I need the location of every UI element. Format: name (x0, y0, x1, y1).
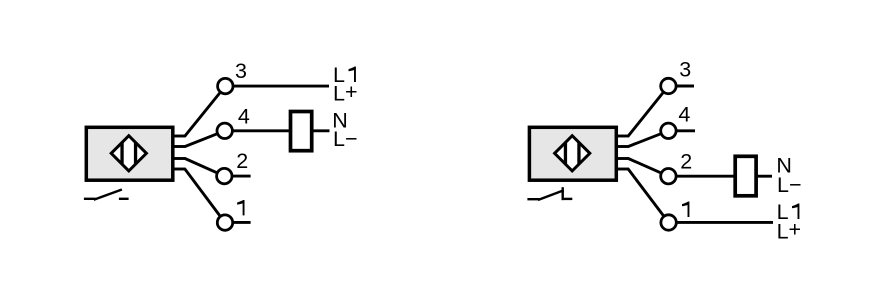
net label N (left) (332, 109, 348, 133)
terminal 3 (right) (661, 78, 676, 93)
net label N (right) (776, 153, 792, 177)
svg-text:L: L (777, 219, 789, 243)
pin number 2 (right) (680, 149, 692, 173)
wire stub3 to terminal 3 (185, 86, 226, 136)
wire load to N/L- (312, 129, 330, 132)
net label L1 (left) (333, 63, 689, 217)
svg-text:2: 2 (236, 149, 248, 173)
right diagram: sensor with NC contact (349, 58, 802, 244)
wire stub4 to terminal 4 (right) (628, 131, 668, 147)
pin stub 2 (right box) (616, 157, 629, 160)
wire stub2 to terminal 2 (right) (628, 159, 668, 177)
load L (right, on pin 2) (735, 156, 756, 196)
terminal 2 (left) (217, 168, 232, 183)
pin stub 2 (left box) (173, 157, 186, 160)
net label L- (right) (777, 173, 802, 197)
wire terminal 1 to L1/L+ (right) (675, 221, 774, 224)
net label L+ (right) (777, 218, 802, 244)
pin number 3 (right) (679, 58, 691, 82)
pin stub 1 (right box) (616, 168, 629, 171)
svg-text:L−: L− (333, 127, 358, 151)
wire stub2 to terminal 2 (185, 159, 224, 177)
wire stub terminal 2 (231, 175, 251, 178)
pin number 4 (left) (238, 104, 250, 128)
wire stub terminal 1 (231, 221, 251, 224)
svg-text:L: L (333, 82, 345, 106)
wire stub1 to terminal 1 (right) (628, 169, 669, 223)
pin number 1 (left) (237, 200, 244, 215)
pin stub 3 (right box) (616, 135, 629, 138)
terminal 2 (right) (661, 169, 676, 184)
wire stub3 to terminal 3 (right) (628, 86, 668, 136)
sensor symbol diamond (right) (555, 136, 590, 171)
svg-text:+: + (789, 218, 802, 242)
load L (left, on pin 4) (291, 112, 312, 151)
svg-text:4: 4 (238, 104, 250, 128)
svg-text:3: 3 (679, 58, 691, 82)
net label L- (left) (333, 127, 358, 151)
pin stub 4 (right box) (616, 145, 629, 148)
terminal 4 (right) (661, 123, 676, 138)
pin stub 3 (left box) (173, 135, 186, 138)
pin number 4 (right) (678, 103, 690, 127)
terminal 1 (right) (661, 215, 676, 230)
NC contact symbol (right) (527, 187, 572, 200)
svg-text:2: 2 (680, 149, 692, 173)
net label L1 (right) (777, 200, 800, 224)
sensor symbol diamond (left) (111, 136, 146, 171)
sensor box (left) (86, 127, 173, 180)
terminal 4 (left) (217, 123, 232, 138)
svg-text:L−: L− (777, 173, 802, 197)
wire terminal 3 to L1/L+ (230, 85, 329, 88)
svg-text:3: 3 (235, 59, 247, 83)
wire load to N/L- (right) (756, 175, 772, 178)
sensor box (right) (529, 127, 616, 180)
net label L+ (left) (333, 80, 358, 106)
wire stub terminal 3 (right) (675, 85, 695, 88)
wire stub terminal 4 (right) (675, 129, 696, 132)
terminal 3 (left) (218, 78, 233, 93)
svg-text:+: + (345, 80, 358, 104)
left diagram: sensor with NO contact (84, 59, 690, 231)
wire stub4 to terminal 4 (185, 131, 225, 147)
terminal 1 (left) (217, 215, 232, 230)
wire stub1 to terminal 1 (185, 169, 225, 223)
wire terminal 2 to load (right) (675, 175, 736, 178)
svg-text:4: 4 (678, 103, 690, 127)
pin stub 1 (left box) (173, 168, 186, 171)
NO contact symbol (left) (84, 190, 129, 200)
pin number 3 (left) (235, 59, 247, 83)
pin number 1 (right) (349, 67, 356, 82)
pin stub 4 (left box) (173, 145, 186, 148)
pin number 2 (left) (236, 149, 248, 173)
wire terminal 4 to load (230, 129, 291, 132)
